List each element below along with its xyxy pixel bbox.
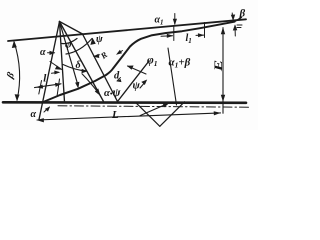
l1 witness right xyxy=(204,23,206,38)
l1 right arrow tail xyxy=(196,34,204,36)
line D near alpha1+beta xyxy=(168,48,177,105)
l left arrowhead xyxy=(36,85,43,89)
beta right down arrow xyxy=(231,13,234,20)
beta right dashes xyxy=(237,24,242,26)
bottom base line xyxy=(3,101,246,104)
barb arrow on curve xyxy=(118,51,123,54)
small arrow right of l pointing at fan line xyxy=(52,71,59,74)
fan line F3 xyxy=(60,22,104,102)
below-line V: right branch xyxy=(160,102,185,127)
L dimension line xyxy=(37,113,221,120)
l1 dimension left arrow line xyxy=(161,35,173,38)
l1 witness left xyxy=(173,27,175,41)
l right arrowhead xyxy=(55,83,61,87)
beta left arc with arrows xyxy=(14,42,20,100)
fan line F2 near vertical xyxy=(60,22,65,103)
E top arrowhead xyxy=(221,27,225,34)
tiny d arrowhead xyxy=(117,78,123,83)
psi top arc arrow tail xyxy=(66,39,92,55)
delta arrow arrowhead xyxy=(55,65,63,70)
svg-text:α1+β: α1+β xyxy=(169,57,191,70)
delta arc arrowhead xyxy=(82,69,88,73)
curve beta stub past crossing xyxy=(235,17,242,21)
beta right up arrowhead xyxy=(233,24,238,30)
svg-text:φ: φ xyxy=(65,39,72,51)
svg-text:E: E xyxy=(212,60,225,73)
L right arrowhead xyxy=(214,111,221,115)
svg-text:d: d xyxy=(114,71,120,82)
l pointer arrowhead xyxy=(54,71,60,75)
beta arc bottom arrowhead xyxy=(15,94,20,101)
svg-text:α: α xyxy=(31,109,37,120)
beta right up arrow xyxy=(234,26,236,37)
svg-text:L: L xyxy=(111,109,119,121)
beta right down arrowhead xyxy=(231,15,235,21)
l1 right arrowhead xyxy=(198,33,204,37)
svg-text:ψ: ψ xyxy=(133,80,141,92)
phi arc xyxy=(62,39,77,44)
fan line F4 short xyxy=(60,22,83,35)
alpha top arrow xyxy=(48,52,55,54)
F2b down arrowhead xyxy=(75,82,79,89)
tiny arrow under d xyxy=(117,78,121,82)
small arrow near R tail xyxy=(95,55,100,56)
fan line F1 apex to left bottom, extended below line xyxy=(39,22,60,120)
H arrowhead xyxy=(127,66,134,70)
alpha bottom arrowhead xyxy=(45,107,50,112)
alpha bottom small arrow xyxy=(44,107,50,112)
svg-text:β: β xyxy=(239,8,246,20)
alpha+psi arc xyxy=(82,74,100,95)
line G2 from bottom vertex up-right xyxy=(118,61,150,102)
line G1 to bottom vertex xyxy=(83,34,118,102)
svg-text:ψ: ψ xyxy=(96,34,103,45)
dash-dot axis line xyxy=(58,106,250,107)
svg-text:δ: δ xyxy=(76,60,81,71)
alpha1 down arrowhead xyxy=(173,19,177,25)
psi mid arrowhead xyxy=(141,80,147,86)
l witness left xyxy=(39,81,42,95)
barb arrowhead xyxy=(116,50,122,55)
svg-text:α•ψ: α•ψ xyxy=(104,85,121,99)
top surface line xyxy=(8,19,246,41)
profile curve xyxy=(42,22,235,103)
svg-text:α: α xyxy=(40,47,46,58)
alpha+psi arc arrowhead xyxy=(95,88,101,96)
below-line V: left branch xyxy=(136,102,160,126)
bottom mid arrowhead xyxy=(163,103,170,107)
alpha top arrowhead xyxy=(50,51,56,55)
psi top arrowhead xyxy=(89,37,95,44)
alpha1 down arrow xyxy=(174,14,176,25)
H arrow tail xyxy=(128,66,147,74)
L left arrowhead xyxy=(37,118,44,122)
delta small arrow xyxy=(50,62,62,70)
small arrow near R xyxy=(93,54,100,58)
E bottom arrowhead xyxy=(221,95,225,102)
delta arc xyxy=(63,65,86,72)
psi mid arrow tail xyxy=(140,82,145,88)
arrow line pointing at bottom line xyxy=(140,103,169,115)
l1 left arrowhead xyxy=(167,34,173,38)
l witness right xyxy=(57,79,60,97)
fan line F2b with down arrow xyxy=(60,22,78,84)
l dimension line xyxy=(35,84,62,88)
E dimension vertical xyxy=(222,28,224,114)
arrowheads xyxy=(12,15,238,123)
beta arc top arrowhead xyxy=(12,41,17,49)
